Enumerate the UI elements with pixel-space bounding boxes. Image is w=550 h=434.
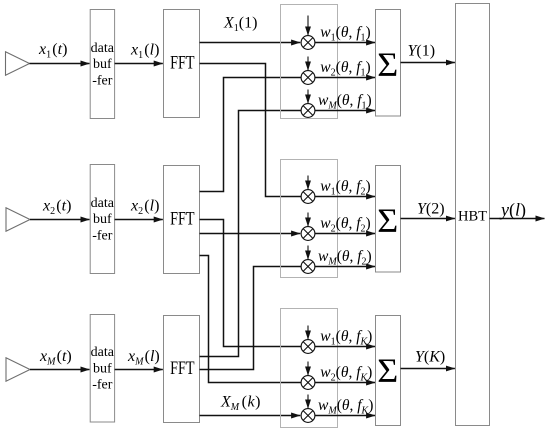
svg-text:-fer: -fer <box>92 378 113 393</box>
wire FFT3 to multiplier M13 <box>200 111 302 357</box>
svg-text:FFT: FFT <box>170 54 194 74</box>
summer SIGMA2 <box>376 166 401 273</box>
wire FFT3 to multiplier M23 <box>200 267 302 370</box>
wire FFT2 to multiplier M31 <box>200 220 302 347</box>
wire FFT2 to multiplier M12 <box>200 78 302 192</box>
wire buffer1 to FFT1 <box>115 63 163 65</box>
wire FFT3 to multiplier M33, node XM(k) <box>200 415 301 417</box>
weight arrow into M21 <box>307 176 309 190</box>
antenna A2 <box>6 208 30 231</box>
wire HBT output, node y(l) <box>490 218 545 220</box>
multiplier M13 <box>301 104 315 118</box>
antenna A3 <box>6 358 30 381</box>
weight arrow into M13 <box>307 90 309 104</box>
weight arrow into M32 <box>307 362 309 376</box>
wire sigma1 to HBT, node Y(1) <box>401 62 455 64</box>
wire buffer2 to FFT2 <box>115 219 163 221</box>
svg-text:-fer: -fer <box>92 73 113 88</box>
svg-text:-fer: -fer <box>92 228 113 243</box>
summer SIGMA1 <box>376 10 401 117</box>
wire M22 to sigma2 <box>315 233 375 235</box>
wire M21 to sigma2 <box>315 196 375 198</box>
svg-text:x1(t): x1(t) <box>38 41 67 61</box>
block HBT <box>456 4 490 426</box>
svg-text:x2(t): x2(t) <box>42 197 71 217</box>
weight arrow into M11 <box>307 16 309 36</box>
multiplier M33 <box>301 409 315 423</box>
data buffer D3 <box>90 315 115 423</box>
weight arrow into M31 <box>307 326 309 340</box>
svg-text:x2(l): x2(l) <box>130 198 159 218</box>
svg-text:Y(K): Y(K) <box>415 349 445 366</box>
multiplier bank 2 frame <box>281 160 338 278</box>
FFT U3 <box>164 316 200 423</box>
svg-text:buf: buf <box>93 57 112 72</box>
multiplier M32 <box>301 376 315 390</box>
svg-text:data: data <box>91 345 115 360</box>
multiplier M22 <box>301 227 315 241</box>
svg-text:buf: buf <box>93 212 112 227</box>
wire M13 to sigma1 <box>315 110 375 112</box>
svg-text:buf: buf <box>93 361 112 376</box>
svg-text:x1(l): x1(l) <box>130 42 159 62</box>
wire antenna2 to buffer2 <box>30 219 90 221</box>
svg-text:Σ: Σ <box>377 352 398 389</box>
multiplier M21 <box>301 190 315 204</box>
summer SIGMA3 <box>376 316 401 426</box>
weight arrow into M33 <box>307 395 309 409</box>
wire FFT2 to multiplier M22 <box>200 233 301 235</box>
weight arrow into M23 <box>307 246 309 260</box>
wire sigma3 to HBT, node Y(K) <box>401 368 455 370</box>
wire M32 to sigma3 <box>315 382 375 384</box>
wire antenna1 to buffer1 <box>30 63 90 65</box>
multiplier M23 <box>301 260 315 274</box>
wire M12 to sigma1 <box>315 77 375 79</box>
wire FFT1 to multiplier M11, node X1(1) <box>200 42 301 44</box>
weight arrow into M22 <box>307 213 309 227</box>
svg-text:Y(2): Y(2) <box>417 201 445 218</box>
svg-text:Σ: Σ <box>377 46 398 83</box>
weight arrow into M12 <box>307 57 309 71</box>
wire M11 to sigma1 <box>315 42 375 44</box>
multiplier bank 3 frame <box>281 309 338 428</box>
data buffer D2 <box>90 165 115 274</box>
wire buffer3 to FFT3 <box>115 369 163 371</box>
wire M31 to sigma3 <box>315 346 375 348</box>
wire FFT1 to multiplier M21 <box>200 64 302 197</box>
wire antenna3 to buffer3 <box>30 369 90 371</box>
FFT U1 <box>164 10 200 118</box>
multiplier M31 <box>301 340 315 354</box>
multiplier M11 <box>301 36 315 50</box>
FFT U2 <box>164 166 200 274</box>
svg-text:y(l): y(l) <box>499 200 526 221</box>
multiplier M12 <box>301 71 315 85</box>
antenna A1 <box>6 52 30 75</box>
wire sigma2 to HBT, node Y(2) <box>401 218 455 220</box>
svg-text:HBT: HBT <box>458 209 487 225</box>
svg-text:Σ: Σ <box>377 202 398 239</box>
svg-text:X1(1): X1(1) <box>223 14 257 34</box>
data buffer D1 <box>90 10 115 119</box>
svg-text:Y(1): Y(1) <box>408 43 436 60</box>
wire M23 to sigma2 <box>315 266 375 268</box>
wire M33 to sigma3 <box>315 415 375 417</box>
svg-text:data: data <box>91 41 115 56</box>
svg-text:FFT: FFT <box>170 210 194 230</box>
wire FFT2 to multiplier M32 <box>200 256 302 383</box>
multiplier bank 1 frame <box>281 5 338 119</box>
svg-text:data: data <box>91 196 115 211</box>
svg-text:FFT: FFT <box>170 359 194 379</box>
